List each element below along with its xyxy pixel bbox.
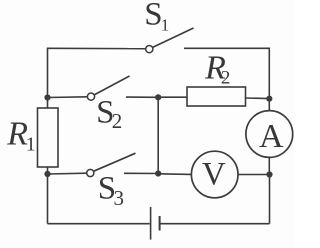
node junction left S2 xyxy=(44,94,50,100)
resistor R1 xyxy=(38,108,59,167)
node junction right of R2 xyxy=(266,96,272,102)
wire middle vertical xyxy=(157,97,159,173)
node junction left S3 xyxy=(44,171,50,177)
wire S2 left xyxy=(48,96,88,99)
switch S2 xyxy=(87,76,129,100)
wire bottom left xyxy=(48,223,150,225)
wire R2 right xyxy=(246,97,270,100)
wire S3 left xyxy=(48,172,87,175)
svg-text:1: 1 xyxy=(161,16,170,35)
svg-text:3: 3 xyxy=(114,186,125,210)
node junction left of R2 xyxy=(155,94,161,100)
wire left vertical lower xyxy=(47,167,49,224)
wire R2 left xyxy=(158,96,187,98)
battery cell short plate xyxy=(159,216,161,231)
ammeter U=A xyxy=(246,111,293,158)
switch S3 xyxy=(87,153,136,176)
voltmeter U=V xyxy=(191,151,238,198)
wire top-left horizontal xyxy=(48,47,146,49)
switch S1 xyxy=(146,28,194,53)
node junction left of V xyxy=(155,170,161,176)
wire S3 right xyxy=(124,172,158,174)
wire V right xyxy=(238,174,270,176)
svg-text:1: 1 xyxy=(26,133,36,155)
svg-text:A: A xyxy=(259,118,284,155)
wire S2 right xyxy=(126,96,158,98)
wire left vertical upper xyxy=(47,48,49,109)
battery cell long plate xyxy=(150,207,152,240)
wire right vertical upper xyxy=(268,48,270,111)
svg-text:2: 2 xyxy=(112,109,123,133)
wire right vertical lower xyxy=(269,175,271,224)
svg-text:2: 2 xyxy=(221,68,231,89)
wire below ammeter xyxy=(268,157,270,174)
wire bottom right xyxy=(160,223,269,225)
node junction right of V xyxy=(266,171,272,177)
wire V left xyxy=(158,173,191,176)
resistor R2 xyxy=(187,87,246,106)
wire top-right horizontal xyxy=(184,47,269,49)
svg-text:V: V xyxy=(202,156,226,192)
